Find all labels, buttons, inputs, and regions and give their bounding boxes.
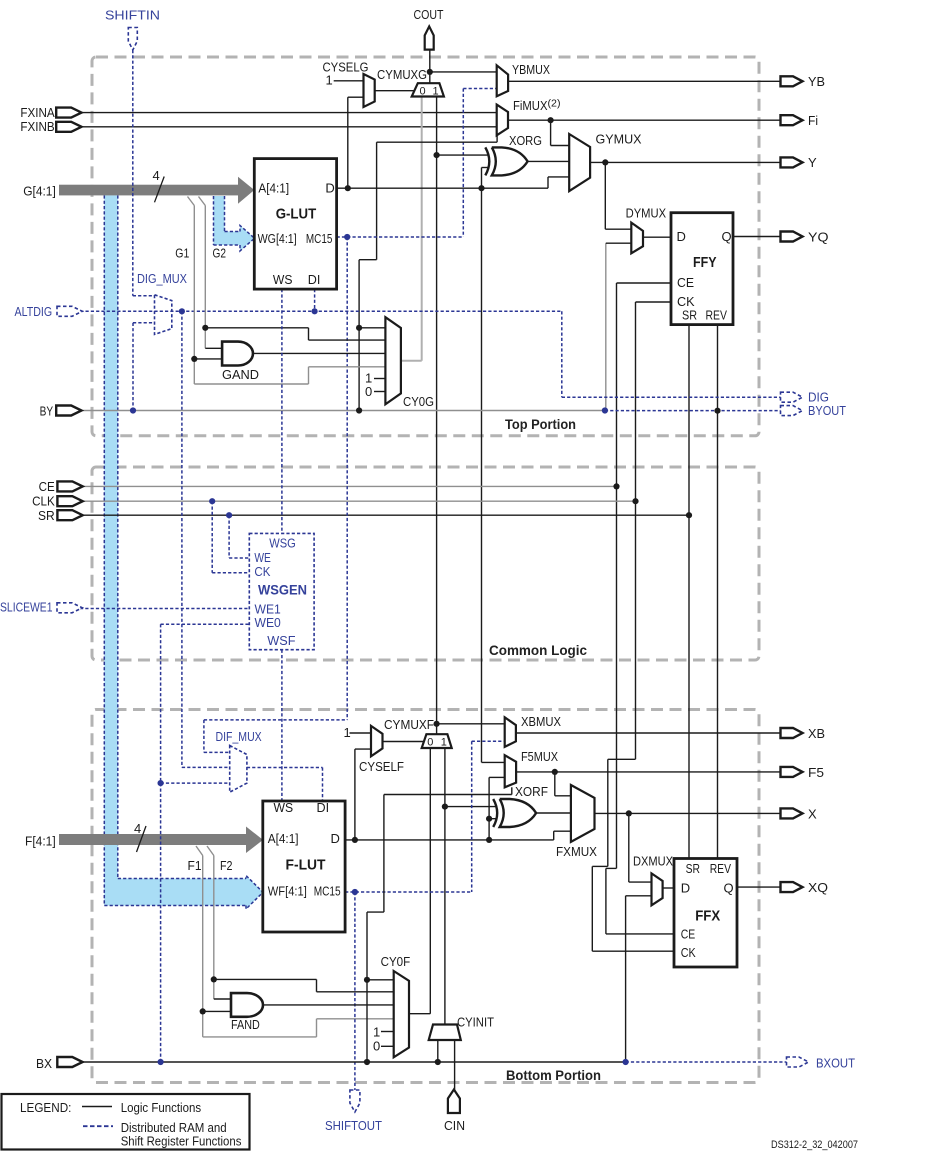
svg-text:FFY: FFY	[693, 254, 717, 271]
svg-text:XORG: XORG	[509, 133, 542, 148]
svg-text:1: 1	[441, 737, 447, 749]
svg-text:F2: F2	[220, 858, 233, 873]
svg-text:Bottom Portion: Bottom Portion	[506, 1068, 601, 1083]
svg-text:MC15: MC15	[314, 883, 341, 898]
svg-text:G1: G1	[175, 246, 189, 261]
svg-text:1: 1	[373, 1024, 380, 1039]
svg-text:CY0F: CY0F	[381, 954, 411, 969]
svg-text:A[4:1]: A[4:1]	[258, 181, 289, 196]
svg-text:WS: WS	[273, 272, 293, 287]
svg-text:SHIFTIN: SHIFTIN	[105, 8, 160, 23]
svg-text:G2: G2	[213, 246, 227, 261]
svg-text:BYOUT: BYOUT	[808, 403, 846, 418]
svg-text:DS312-2_32_042007: DS312-2_32_042007	[771, 1139, 858, 1151]
svg-text:CIN: CIN	[444, 1118, 465, 1133]
svg-text:F1: F1	[188, 858, 202, 873]
svg-text:CK: CK	[254, 564, 270, 579]
svg-text:SLICEWE1: SLICEWE1	[0, 601, 53, 615]
svg-text:FXINB: FXINB	[20, 119, 54, 134]
svg-text:1: 1	[344, 725, 351, 740]
svg-text:DIG_MUX: DIG_MUX	[137, 271, 187, 286]
svg-text:COUT: COUT	[414, 7, 444, 22]
svg-text:WSG: WSG	[269, 536, 296, 551]
svg-text:XQ: XQ	[808, 880, 828, 895]
svg-text:WS: WS	[274, 800, 294, 815]
svg-text:F5MUX: F5MUX	[521, 749, 558, 764]
svg-text:Fi: Fi	[808, 113, 818, 128]
svg-text:D: D	[325, 181, 334, 196]
svg-text:WF[4:1]: WF[4:1]	[268, 883, 307, 898]
svg-text:0: 0	[427, 737, 433, 749]
svg-text:MC15: MC15	[306, 231, 333, 246]
svg-text:X: X	[808, 807, 817, 822]
svg-text:SHIFTOUT: SHIFTOUT	[325, 1118, 382, 1133]
svg-text:4: 4	[153, 168, 160, 183]
svg-text:CE: CE	[677, 275, 694, 290]
svg-text:1: 1	[433, 86, 439, 98]
svg-text:Common Logic: Common Logic	[489, 643, 587, 658]
svg-text:A[4:1]: A[4:1]	[268, 831, 299, 846]
svg-text:BY: BY	[40, 404, 54, 419]
svg-text:GYMUX: GYMUX	[596, 132, 642, 147]
svg-text:F[4:1]: F[4:1]	[25, 834, 56, 849]
svg-text:(2): (2)	[548, 99, 561, 110]
svg-text:SR: SR	[686, 861, 700, 876]
svg-text:ALTDIG: ALTDIG	[15, 304, 53, 319]
svg-text:D: D	[331, 831, 340, 846]
svg-text:G-LUT: G-LUT	[276, 206, 317, 223]
svg-text:CE: CE	[681, 927, 696, 942]
svg-text:LEGEND:: LEGEND:	[20, 1100, 71, 1115]
svg-text:BXOUT: BXOUT	[816, 1056, 855, 1071]
svg-text:DI: DI	[308, 272, 321, 287]
svg-text:Top Portion: Top Portion	[505, 417, 576, 432]
svg-text:CYMUXG: CYMUXG	[377, 67, 427, 82]
svg-text:0: 0	[373, 1039, 380, 1054]
svg-text:REV: REV	[706, 308, 728, 323]
svg-text:Y: Y	[808, 155, 817, 170]
svg-text:CYSELF: CYSELF	[359, 759, 404, 774]
svg-text:XBMUX: XBMUX	[521, 714, 561, 729]
svg-text:WG[4:1]: WG[4:1]	[258, 231, 297, 246]
svg-text:CE: CE	[39, 479, 55, 494]
svg-text:YBMUX: YBMUX	[512, 62, 550, 77]
svg-text:FFX: FFX	[695, 907, 720, 924]
svg-text:CK: CK	[681, 945, 696, 960]
svg-text:WSF: WSF	[267, 633, 295, 648]
svg-text:FXINA: FXINA	[20, 105, 55, 120]
svg-text:CYMUXF: CYMUXF	[384, 717, 434, 732]
svg-text:BX: BX	[36, 1056, 52, 1071]
svg-text:DI: DI	[317, 800, 330, 815]
svg-text:D: D	[677, 229, 686, 244]
svg-text:REV: REV	[710, 861, 732, 876]
svg-text:4: 4	[134, 821, 141, 836]
svg-text:F-LUT: F-LUT	[286, 856, 326, 873]
svg-text:CY0G: CY0G	[403, 394, 434, 409]
svg-text:SR: SR	[38, 508, 55, 523]
svg-text:DYMUX: DYMUX	[626, 206, 667, 221]
svg-text:FXMUX: FXMUX	[556, 844, 597, 859]
svg-text:D: D	[681, 880, 690, 895]
svg-text:WE0: WE0	[255, 615, 281, 630]
svg-text:FiMUX: FiMUX	[513, 98, 548, 113]
svg-text:YB: YB	[808, 74, 825, 89]
svg-text:Logic Functions: Logic Functions	[121, 1100, 202, 1115]
svg-text:GAND: GAND	[222, 367, 259, 382]
svg-text:CYINIT: CYINIT	[457, 1015, 494, 1030]
svg-text:WE: WE	[254, 550, 271, 565]
svg-text:0: 0	[365, 384, 372, 399]
svg-text:XB: XB	[808, 726, 825, 741]
svg-text:0: 0	[420, 86, 426, 98]
svg-text:Q: Q	[722, 229, 732, 244]
svg-text:DIF_MUX: DIF_MUX	[216, 729, 262, 744]
svg-text:SR: SR	[682, 308, 697, 323]
svg-text:Shift Register Functions: Shift Register Functions	[121, 1134, 242, 1149]
svg-text:YQ: YQ	[808, 230, 829, 245]
svg-text:DXMUX: DXMUX	[633, 853, 673, 868]
svg-text:Q: Q	[724, 880, 734, 895]
svg-text:XORF: XORF	[515, 784, 548, 799]
svg-text:1: 1	[326, 73, 333, 88]
svg-text:G[4:1]: G[4:1]	[23, 184, 56, 199]
svg-text:WSGEN: WSGEN	[258, 582, 307, 598]
svg-text:F5: F5	[808, 765, 824, 780]
svg-text:CLK: CLK	[32, 493, 55, 508]
svg-text:FAND: FAND	[231, 1017, 260, 1032]
